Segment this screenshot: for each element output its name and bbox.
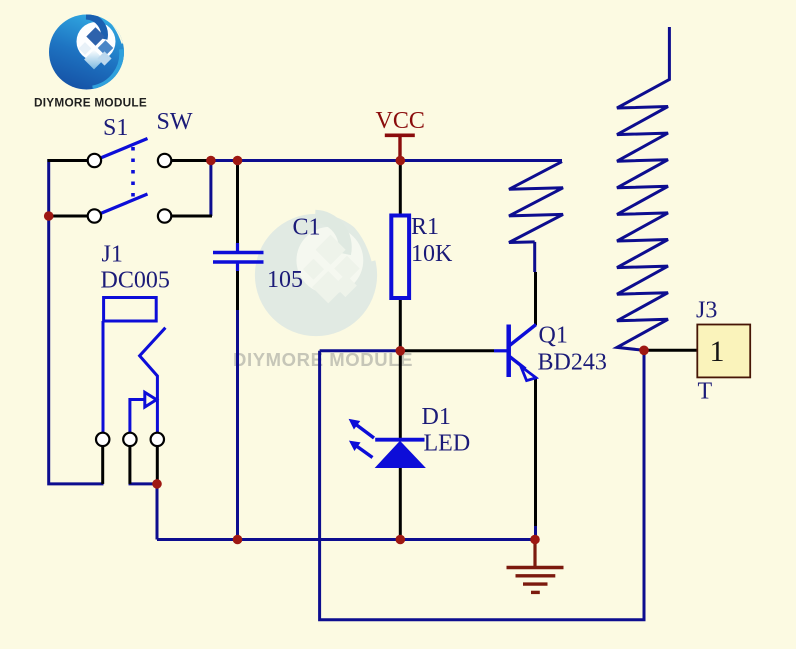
junction at D1 bottom: [396, 535, 406, 545]
J1 pin 3: [151, 433, 164, 446]
node A: base junction: [396, 346, 406, 356]
junction at C1 top: [233, 156, 243, 166]
watermark logo circle: [255, 213, 377, 336]
J1 pin 1: [96, 433, 109, 446]
junction at S1 pin 2 bus: [206, 156, 216, 166]
wire: bottom horizontal y=539.5: [157, 538, 535, 541]
wire: jack pin2 to node: [129, 484, 158, 540]
VCC power symbol: [385, 135, 415, 160]
svg-text:Q1: Q1: [539, 323, 568, 349]
wire: feedback loop: [320, 350, 644, 620]
wire: emitter lead black: [534, 378, 537, 527]
connector J1 DC005: [103, 298, 165, 434]
capacitor C1: [213, 243, 264, 271]
svg-text:10K: 10K: [411, 241, 453, 267]
LED arrow 2: [357, 446, 373, 457]
S1 pin 1: [88, 154, 101, 167]
J1 pin 2: [123, 433, 136, 446]
wire: C1 top lead: [236, 161, 239, 245]
connector J3: [697, 325, 750, 378]
switch S1: [101, 139, 148, 214]
svg-text:J3: J3: [696, 298, 717, 324]
svg-text:T: T: [698, 378, 713, 404]
coil secondary winding: [617, 27, 669, 350]
wire: S1 pin 1 stub: [48, 159, 89, 162]
wire: S1 pin 3 stub: [48, 215, 89, 218]
junction at VCC node: [396, 156, 406, 166]
S1 pin 3: [88, 209, 101, 222]
svg-text:LED: LED: [424, 431, 471, 457]
wire: J1 pin 1 lead: [101, 445, 104, 484]
transistor Q1: [494, 325, 536, 381]
svg-text:J1: J1: [102, 242, 123, 268]
junction at C1 bottom: [233, 535, 243, 545]
S1 pin 2: [158, 154, 171, 167]
logo diymore: [49, 13, 124, 90]
wire: collector lead black: [534, 272, 537, 325]
wire: left vertical x=48.7: [49, 159, 104, 484]
svg-text:1: 1: [710, 335, 725, 368]
wire: C1 bottom lead: [236, 270, 239, 310]
wire: J1 pin 3 lead: [156, 445, 159, 484]
wire: base horizontal: [320, 349, 401, 352]
LED D1: [350, 420, 425, 468]
wire: primary coil tail: [533, 242, 536, 272]
coil primary winding: [509, 162, 563, 243]
wire: D1 cathode lead: [399, 468, 402, 540]
wire: J3 lead black: [644, 349, 697, 352]
wire: C1 lower column: [236, 308, 239, 540]
wire: switch right vertical: [209, 161, 212, 217]
junction at S1 pin 3: [44, 211, 54, 221]
node T: coil tap junction: [639, 346, 649, 356]
resistor R1: [391, 216, 409, 299]
wire: emitter to ground node: [534, 524, 537, 540]
watermark diamonds: [303, 235, 359, 304]
svg-text:SW: SW: [157, 109, 193, 135]
junction at ground node: [530, 535, 540, 545]
wire: R1 bottom lead: [399, 298, 402, 351]
logo diamonds: [79, 27, 114, 69]
wire: J1 pin 2 lead: [128, 445, 131, 484]
svg-text:S1: S1: [103, 115, 128, 141]
wire: D1 anode lead: [399, 351, 402, 439]
svg-text:DC005: DC005: [101, 268, 170, 294]
wire: top horizontal bus y=160.5: [211, 159, 562, 162]
LED arrow 1: [357, 425, 375, 438]
svg-text:DIYMORE MODULE: DIYMORE MODULE: [34, 96, 147, 110]
ground: [507, 540, 564, 593]
wire: R1 top lead: [399, 161, 402, 217]
junction at J1 pins: [152, 479, 162, 489]
S1 pin 4: [158, 209, 171, 222]
svg-text:105: 105: [267, 267, 303, 293]
svg-text:C1: C1: [293, 214, 321, 240]
svg-text:D1: D1: [422, 404, 451, 430]
wire: S1 pin 2 stub: [171, 159, 212, 162]
svg-text:BD243: BD243: [538, 350, 607, 376]
svg-text:VCC: VCC: [376, 108, 425, 134]
svg-text:R1: R1: [411, 214, 439, 240]
wire: S1 pin 4 stub: [171, 215, 212, 218]
